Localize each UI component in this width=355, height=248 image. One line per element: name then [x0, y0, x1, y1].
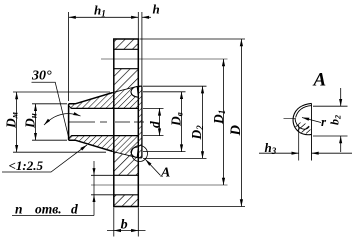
extension lines Dv [143, 92, 186, 152]
section hatch collar strip [138, 86, 142, 158]
extension lines b [114, 208, 139, 237]
detail bead outer contour [293, 103, 311, 134]
dimension line D outer [240, 39, 242, 207]
svg-text:A: A [160, 166, 170, 181]
dimension line b2 [340, 88, 342, 152]
bead bottom (rounded rim) [131, 147, 138, 158]
collar rim top edge [138, 85, 142, 87]
svg-text:A: A [313, 70, 327, 91]
collar right face [141, 86, 143, 158]
mouth chamfer 30deg top [69, 106, 72, 109]
section hatch pipe wall bottom [69, 136, 139, 158]
note underline [12, 215, 94, 217]
leader 30deg [32, 82, 69, 136]
lower hole edge extensions [91, 175, 114, 195]
dimension line d bore [159, 108, 161, 135]
flange ring outline [114, 39, 139, 207]
pipe outer top and taper cone 1:2.5 [69, 93, 113, 104]
centerline pipe axis [69, 121, 145, 123]
lower bolt hole edges [114, 175, 139, 195]
cone-to-ring contact line top [113, 86, 138, 92]
pipe mouth end face [68, 104, 70, 140]
extension lines b2 [313, 106, 348, 136]
detail collar right face [311, 103, 313, 160]
extension lines d [143, 108, 164, 135]
dimension line Dn [35, 104, 37, 140]
pipe bore top line [71, 107, 138, 109]
dimension line h3 [259, 152, 352, 154]
section hatch flange ring upper band [114, 39, 139, 49]
svg-text:b: b [121, 218, 128, 233]
collar rim bottom edge [138, 157, 142, 159]
detail centerline tick [284, 118, 297, 120]
section hatch flange ring bottom band [114, 195, 139, 207]
dimension line h tail [142, 16, 151, 18]
upper bolt hole edges [114, 49, 139, 68]
detail bead hatch [296, 123, 311, 134]
extension line mouth top [68, 12, 70, 101]
extension lines Dn [32, 104, 67, 140]
svg-text:d: d [147, 121, 162, 128]
extension lines Dm [13, 92, 110, 152]
cone-to-ring contact line bottom [113, 151, 138, 157]
upper bolt hole axis [101, 58, 228, 60]
extension lines D2 [143, 86, 207, 158]
callout leader A [145, 159, 160, 175]
svg-text:h: h [153, 2, 160, 17]
dimension line h1 [69, 16, 139, 18]
section hatch flange ring lower-middle band [114, 151, 139, 175]
leader r [302, 118, 321, 123]
section hatch flange ring upper-middle band [114, 69, 139, 93]
lower bolt hole axis [91, 184, 228, 186]
mouth chamfer 30deg bottom [69, 136, 72, 139]
pipe bore bottom line [71, 135, 138, 137]
detail bead inner crescent [296, 106, 312, 118]
angle arc 30deg [44, 114, 81, 125]
note riser line [93, 161, 95, 216]
pipe outer bottom and taper cone 1:2.5 [69, 140, 113, 151]
svg-text:<1:2.5: <1:2.5 [9, 158, 44, 173]
dimension line D2 collar [202, 86, 204, 158]
bead top (rounded rim) [131, 87, 138, 98]
svg-text:30°: 30° [31, 69, 52, 84]
taper underline and leader [2, 145, 87, 172]
detail bead hook inner line [295, 119, 309, 130]
dimension line Dv [181, 92, 183, 152]
section hatch pipe wall top [69, 86, 139, 108]
hole diameter arrows [93, 168, 96, 175]
dimension line Dm [16, 92, 18, 152]
extension line ring right face top [137, 12, 139, 39]
dimension line b [107, 230, 146, 232]
detail callout circle A [132, 146, 148, 162]
detail collar left face [298, 125, 300, 161]
svg-text:D: D [228, 125, 244, 137]
dimension line D1 bolt circle [223, 59, 225, 185]
extension line collar right face top [141, 12, 143, 86]
extension lines D [140, 39, 246, 207]
